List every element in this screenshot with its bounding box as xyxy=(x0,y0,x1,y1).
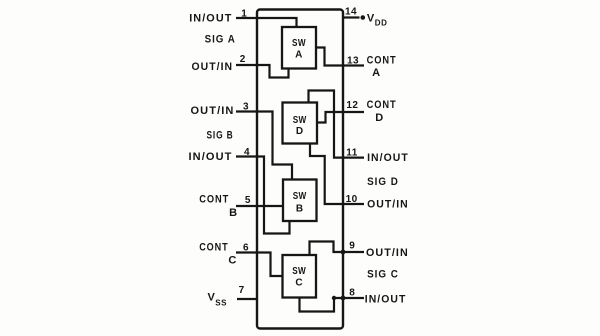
svg-text:CONT: CONT xyxy=(199,194,229,206)
wire pin 2 to SW A bottom xyxy=(236,65,289,78)
svg-text:C: C xyxy=(295,278,303,289)
svg-text:CONT: CONT xyxy=(367,99,397,111)
svg-text:CONT: CONT xyxy=(367,55,397,67)
switch box SW B xyxy=(283,180,317,222)
svg-text:DD: DD xyxy=(375,18,388,27)
wire pin 3 to SW B top xyxy=(236,112,292,180)
svg-text:9: 9 xyxy=(349,241,355,252)
switch box SW A xyxy=(282,27,316,69)
wire pin 14 VDD stub xyxy=(343,16,360,18)
svg-text:SIG A: SIG A xyxy=(205,34,236,46)
svg-text:A: A xyxy=(295,50,303,61)
junction dot pin 8 at IC edge xyxy=(341,296,346,301)
svg-text:SS: SS xyxy=(215,299,227,308)
wire pin 6 to SW C left xyxy=(236,253,283,277)
svg-text:A: A xyxy=(372,67,381,79)
svg-text:8: 8 xyxy=(349,288,355,299)
wire pin 5 to SW B left xyxy=(236,205,283,207)
wire SW D right to pin 12 xyxy=(317,112,364,123)
svg-text:B: B xyxy=(229,207,238,219)
wire pin 1 to SW A top xyxy=(236,18,297,27)
svg-text:SIG B: SIG B xyxy=(207,130,234,142)
junction dot SW C bottom wire corner xyxy=(332,296,336,300)
svg-text:2: 2 xyxy=(240,54,246,65)
svg-text:C: C xyxy=(228,255,237,267)
svg-text:D: D xyxy=(375,112,384,124)
svg-text:SW: SW xyxy=(292,265,306,277)
svg-text:SW: SW xyxy=(292,37,306,49)
svg-text:11: 11 xyxy=(346,148,358,159)
IC body outline U1 xyxy=(257,10,343,329)
switch box SW C xyxy=(283,255,317,298)
svg-text:1: 1 xyxy=(241,9,247,20)
svg-text:D: D xyxy=(296,126,304,137)
svg-text:OUT/IN: OUT/IN xyxy=(192,61,234,73)
svg-text:SIG D: SIG D xyxy=(367,176,399,188)
svg-text:12: 12 xyxy=(346,100,358,111)
wire SW C top to pin 9 xyxy=(310,242,365,256)
svg-text:6: 6 xyxy=(243,243,249,254)
svg-text:SW: SW xyxy=(293,114,307,126)
svg-text:IN/OUT: IN/OUT xyxy=(189,13,232,25)
svg-text:13: 13 xyxy=(347,56,359,67)
node dot at +VDD xyxy=(361,15,366,20)
wire SW D bottom to pin 10 xyxy=(310,144,364,205)
svg-text:CONT: CONT xyxy=(199,242,228,254)
svg-text:4: 4 xyxy=(244,147,250,158)
svg-text:IN/OUT: IN/OUT xyxy=(367,152,409,164)
svg-text:14: 14 xyxy=(345,7,357,18)
wire SW A right to pin 13 xyxy=(316,48,364,66)
svg-text:5: 5 xyxy=(245,195,251,206)
junction dot pin 9 at IC edge xyxy=(341,250,346,255)
switch box SW D xyxy=(283,103,318,144)
svg-text:OUT/IN: OUT/IN xyxy=(367,199,409,211)
svg-text:3: 3 xyxy=(243,102,249,113)
wire SW C bottom to pin 8 xyxy=(300,298,365,312)
svg-text:7: 7 xyxy=(239,285,245,296)
svg-text:OUT/IN: OUT/IN xyxy=(366,247,409,259)
svg-text:IN/OUT: IN/OUT xyxy=(189,151,233,163)
svg-text:SIG C: SIG C xyxy=(367,269,399,281)
wire SW D top to pin 11 xyxy=(309,91,365,158)
svg-text:10: 10 xyxy=(346,194,358,205)
wire pin 4 to SW B bottom xyxy=(236,157,290,234)
wire pin 7 VSS to IC edge xyxy=(237,298,258,300)
svg-text:IN/OUT: IN/OUT xyxy=(365,294,407,306)
svg-text:OUT/IN: OUT/IN xyxy=(191,105,235,117)
svg-text:SW: SW xyxy=(293,190,307,202)
svg-text:B: B xyxy=(296,204,304,215)
